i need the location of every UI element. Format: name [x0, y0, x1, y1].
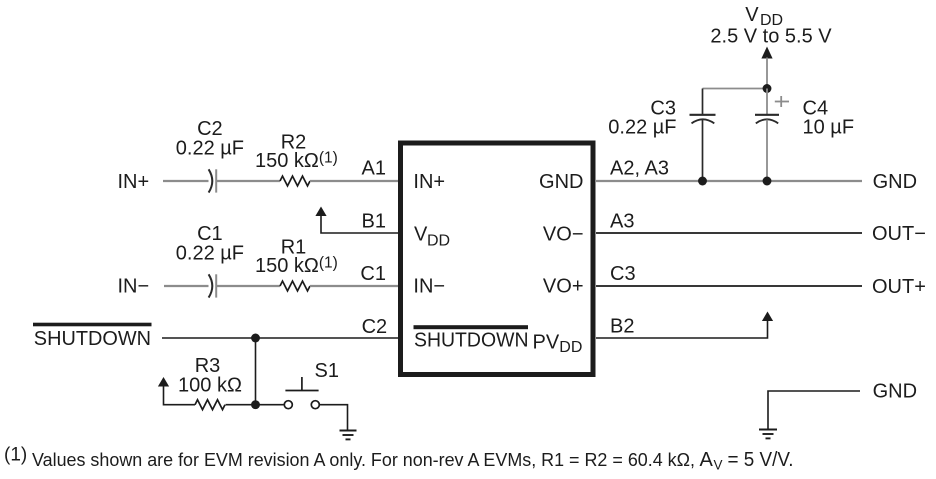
svg-text:V: V	[745, 4, 759, 26]
wire GND bottom right	[768, 391, 860, 430]
svg-text:= 5 V/V.: = 5 V/V.	[728, 449, 794, 471]
svg-text:100 kΩ: 100 kΩ	[178, 375, 242, 397]
wire C2 to R2	[216, 180, 280, 182]
svg-text:IN−: IN−	[413, 276, 445, 298]
capacitor C4	[755, 89, 854, 182]
svg-text:OUT+: OUT+	[872, 276, 926, 298]
svg-text:VO+: VO+	[543, 276, 584, 298]
svg-text:V: V	[714, 457, 723, 472]
svg-text:0.22 µF: 0.22 µF	[176, 242, 244, 264]
svg-text:(1): (1)	[4, 445, 27, 466]
junction C3 / GND rail	[698, 177, 707, 186]
svg-text:IN−: IN−	[118, 276, 150, 298]
svg-text:C1: C1	[360, 263, 386, 285]
svg-text:OUT−: OUT−	[872, 223, 926, 245]
junction C4 / GND rail	[763, 177, 772, 186]
resistor R2	[255, 132, 338, 186]
capacitor C3	[608, 89, 715, 182]
wire IN- to C1	[164, 285, 209, 287]
resistor R1	[255, 237, 338, 291]
pin SHUTDOWN (C2) with overline	[414, 325, 529, 329]
svg-text:PV: PV	[533, 332, 560, 354]
svg-text:A1: A1	[362, 158, 386, 180]
svg-text:SHUTDOWN: SHUTDOWN	[34, 328, 151, 350]
wire VDD to C3	[703, 88, 768, 90]
wire C1 to R1	[216, 285, 280, 287]
wire SHUTDOWN to pin C2	[162, 337, 399, 339]
ground (bottom right)	[759, 430, 777, 439]
svg-text:10 µF: 10 µF	[803, 117, 855, 139]
junction R3/S1 node	[251, 400, 260, 409]
wire S1 to ground	[320, 405, 348, 431]
ground (S1)	[340, 431, 357, 440]
wire SHUTDOWN node down to R3/S1	[255, 338, 257, 405]
wire node to S1	[256, 404, 284, 406]
wire PVDD (B2) with VDD arrow	[596, 312, 773, 339]
svg-text:R3: R3	[195, 355, 221, 377]
svg-text:0.22 µF: 0.22 µF	[608, 117, 676, 139]
port SHUTDOWN with overline	[33, 323, 152, 350]
svg-text:A3: A3	[610, 211, 634, 233]
svg-text:GND: GND	[873, 171, 917, 193]
wire VO- to OUT-	[596, 232, 862, 234]
junction VDD node	[763, 84, 772, 93]
resistor R3 with VDD arrow	[158, 355, 256, 410]
svg-text:DD: DD	[559, 339, 582, 356]
switch S1	[284, 360, 339, 409]
svg-text:A: A	[700, 449, 714, 471]
svg-text:B1: B1	[362, 211, 386, 233]
note footnote (1)	[4, 445, 794, 473]
wire VO+ to OUT+	[596, 285, 862, 287]
svg-text:V: V	[414, 224, 428, 246]
svg-text:GND: GND	[873, 381, 917, 403]
IC U1 TPA6211A1	[401, 143, 594, 375]
svg-text:0.22 µF: 0.22 µF	[176, 137, 244, 159]
junction SHUTDOWN node	[251, 334, 260, 343]
wire R2 to pin A1	[310, 180, 399, 182]
node VDD label	[710, 4, 832, 48]
svg-text:GND: GND	[539, 171, 583, 193]
svg-text:Values shown are for EVM revis: Values shown are for EVM revision A only…	[32, 449, 695, 470]
svg-text:S1: S1	[315, 360, 339, 382]
wire IN+ to C2	[163, 180, 209, 182]
svg-text:SHUTDOWN: SHUTDOWN	[414, 330, 529, 352]
svg-text:2.5 V to 5.5 V: 2.5 V to 5.5 V	[710, 26, 832, 48]
wire R1 to pin C1	[310, 285, 399, 287]
svg-text:IN+: IN+	[413, 171, 445, 193]
wire GND rail	[596, 180, 862, 182]
capacitor C1	[176, 223, 244, 298]
svg-text:A2, A3: A2, A3	[610, 158, 669, 180]
svg-text:IN+: IN+	[118, 171, 150, 193]
wire pin B1 (VDD) with arrow	[315, 207, 399, 234]
svg-text:B2: B2	[610, 316, 634, 338]
capacitor C2	[176, 118, 244, 193]
svg-text:DD: DD	[427, 233, 450, 250]
svg-text:C2: C2	[362, 316, 388, 338]
svg-text:VO−: VO−	[543, 224, 584, 246]
VDD arrow	[761, 47, 772, 89]
svg-text:C3: C3	[610, 263, 636, 285]
